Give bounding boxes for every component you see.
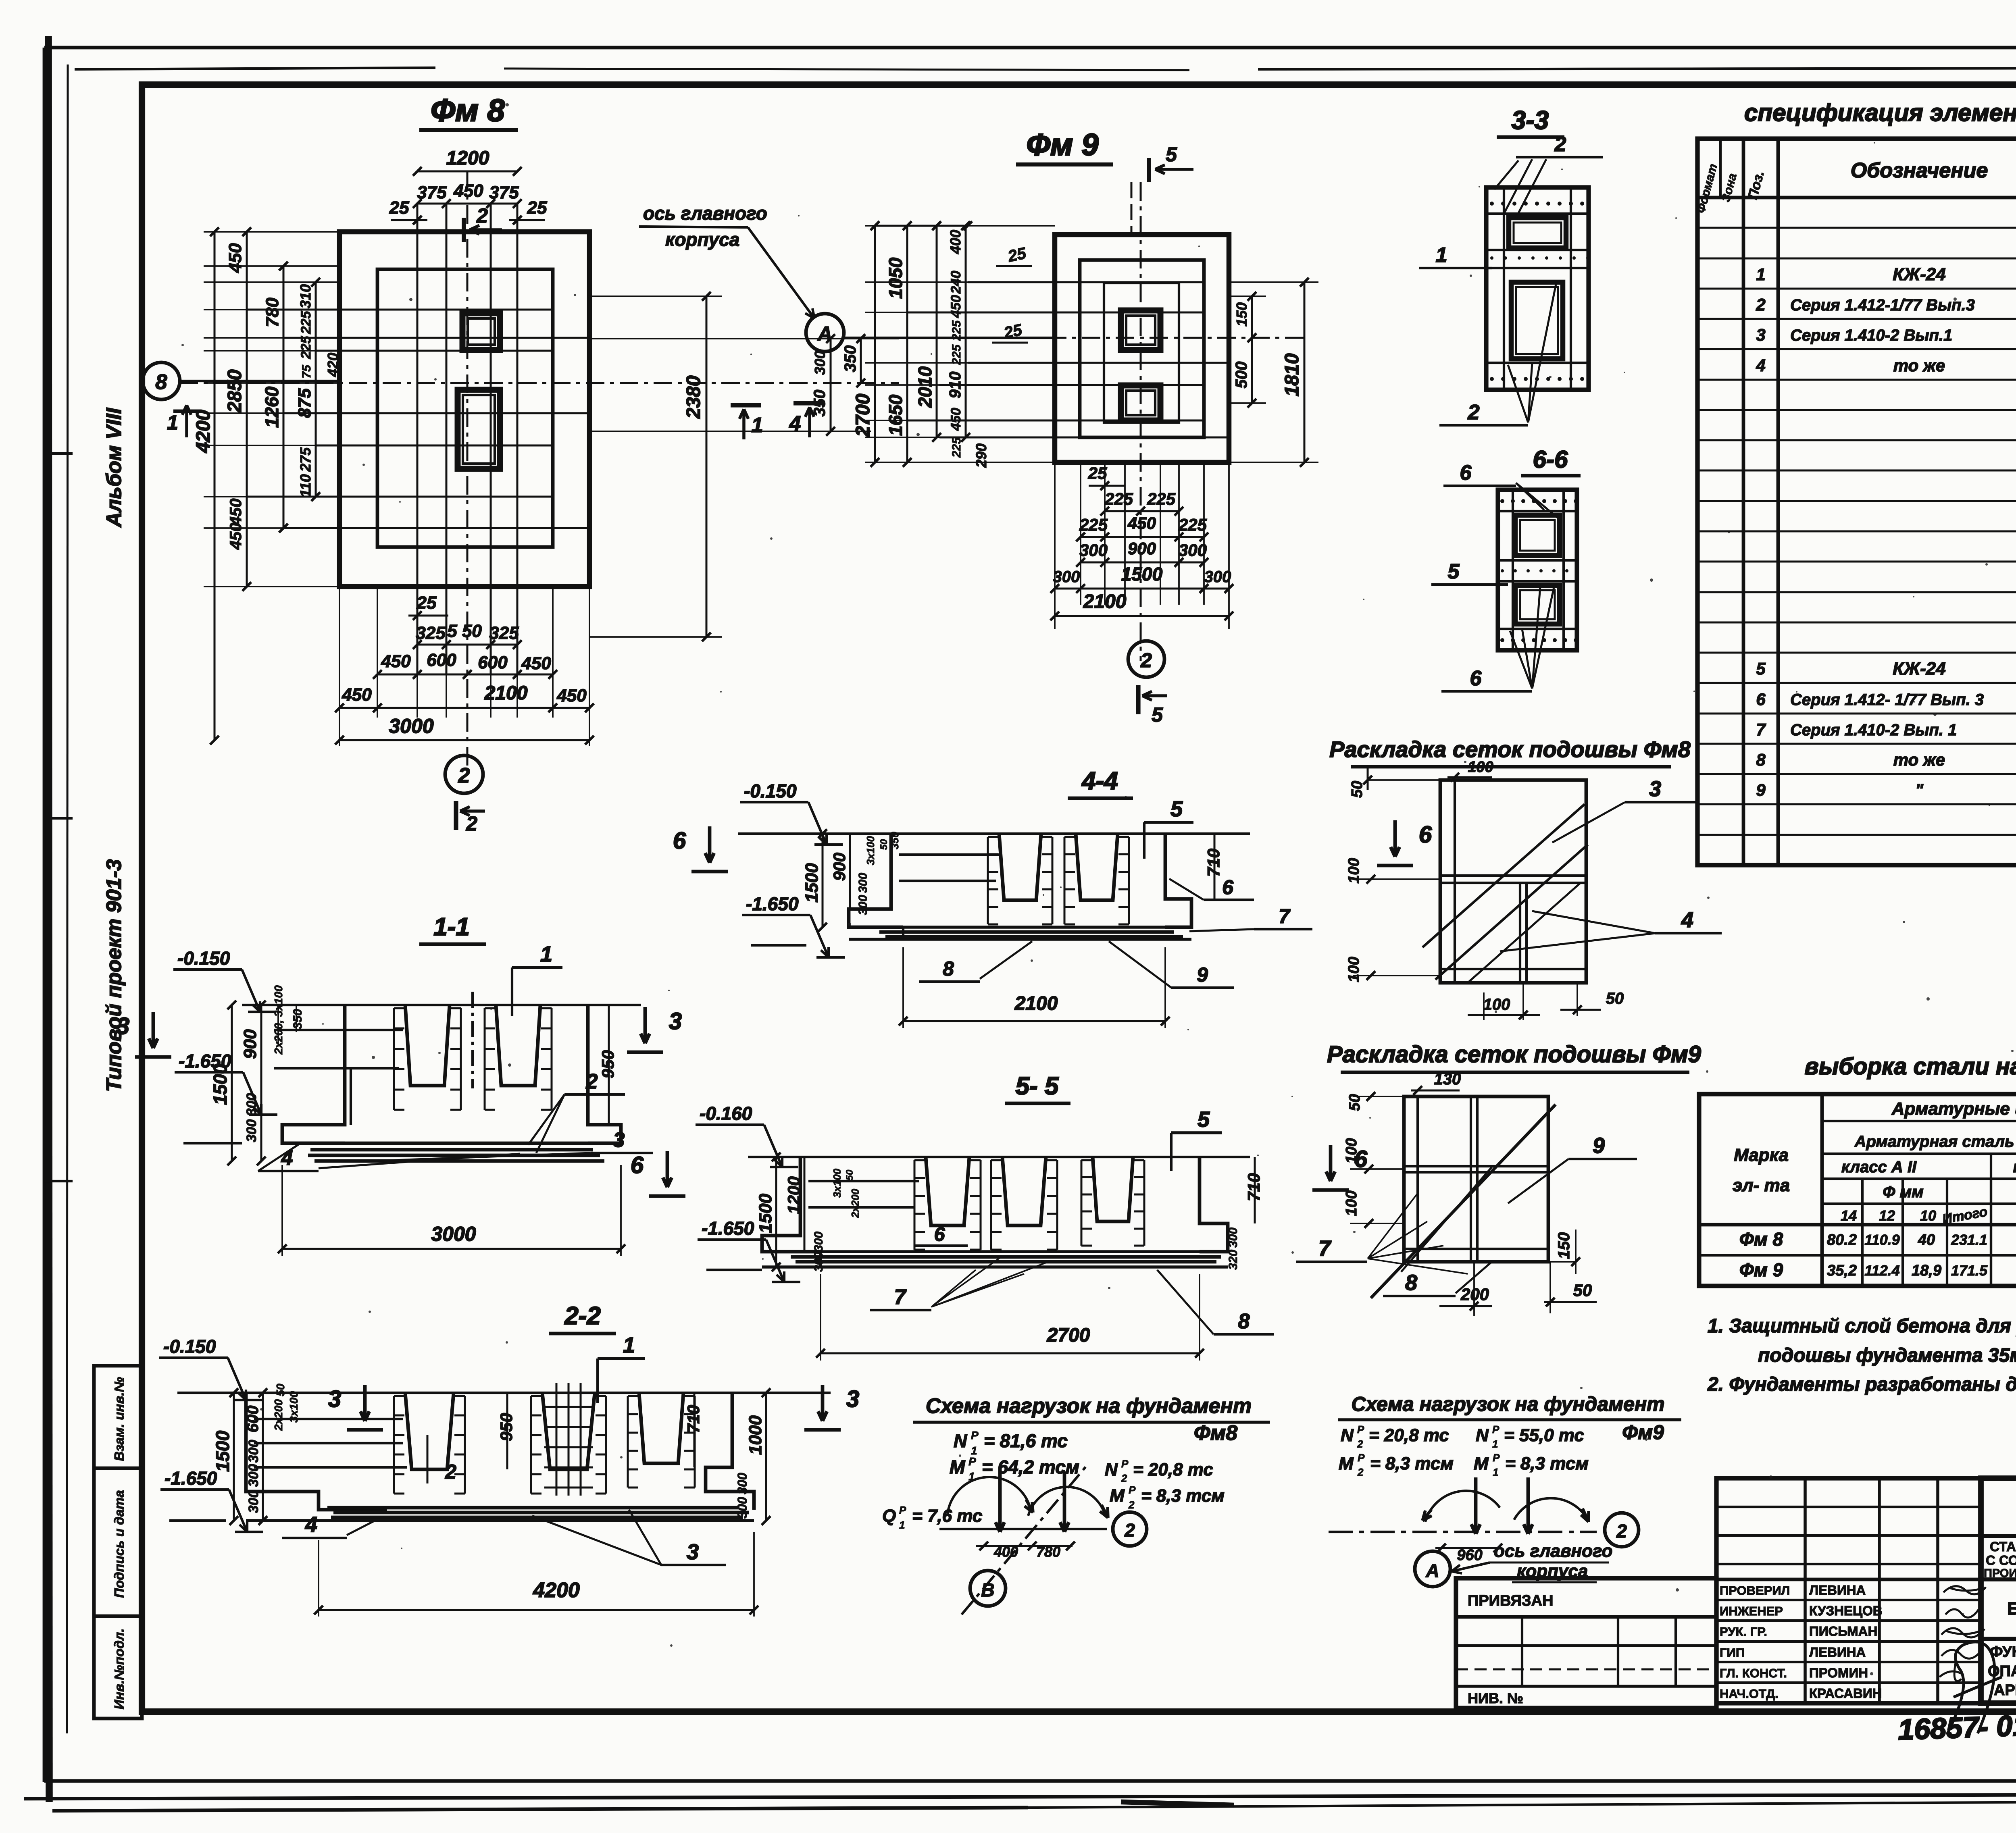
plan FM9 axis circle 2 [1128,641,1164,677]
scan left edge bar [48,36,49,1802]
svg-text:1: 1 [1436,243,1447,267]
section 4-4 left dims [822,834,824,927]
section 6-6 rebar dots [1500,499,1504,503]
plan FM9 bottom extension lines [1054,462,1056,629]
svg-text:14: 14 [1841,1207,1857,1224]
svg-text:1650: 1650 [885,394,906,436]
svg-text:450: 450 [381,651,411,671]
section 2-2 center grid rebars [556,1383,558,1496]
title block outer right part [1981,1478,2016,1703]
svg-text:Серия 1.412-1/77 Вып.3: Серия 1.412-1/77 Вып.3 [1790,296,1975,314]
svg-text:= 55,0 тс: = 55,0 тс [1504,1425,1584,1445]
plan FM9 inner second contour [1104,283,1179,422]
section 5-5 bottom dim 2700 [821,1352,1200,1354]
schema FM9 force arrow 1 [1474,1477,1478,1534]
schema FM8 axis circle B [970,1571,1006,1606]
svg-text:Схема нагрузок на фундамент: Схема нагрузок на фундамент [926,1394,1252,1418]
spec table column lines [1742,139,1745,865]
svg-text:300: 300 [812,1232,825,1252]
schema FM8 force arrow 2 [1063,1471,1066,1532]
svg-text:2. Фундаменты разработаны дл: 2. Фундаменты разработаны для t°н = - 30… [1707,1374,2016,1395]
scan noise speckles [399,501,401,503]
plan FM8 internal vertical lines [417,204,419,674]
svg-text:класс А II: класс А II [1841,1158,1917,1176]
svg-text:1: 1 [899,1519,905,1531]
svg-text:300: 300 [244,1093,259,1116]
plan FM9 small dims 25 [996,265,1032,267]
section 4-4 inner horizontals [899,853,1000,856]
svg-text:300: 300 [856,895,870,915]
plan FM8 section mark 2 bottom [454,801,458,830]
svg-text:2: 2 [1357,1438,1363,1450]
schema FM9 base axis line [1329,1531,1597,1533]
vyborka table structure [1820,1094,1824,1286]
svg-text:225: 225 [298,311,314,335]
svg-text:= 20,8 тс: = 20,8 тс [1369,1425,1449,1445]
svg-text:3: 3 [669,1008,682,1034]
svg-text:450: 450 [948,295,964,318]
plan FM8 anchor hole bottom [458,390,500,469]
svg-text:450: 450 [948,408,964,431]
svg-text:50: 50 [274,1384,287,1396]
svg-text:-1.650: -1.650 [702,1218,754,1239]
plan FM9 bottom dim 2100 [1055,615,1229,617]
spec table outer [1697,139,2016,865]
svg-text:7: 7 [1318,1236,1332,1261]
plan FM9 left dim ladder [874,226,876,462]
svg-text:290: 290 [973,443,989,468]
svg-text:1500: 1500 [802,863,822,903]
svg-text:-1.650: -1.650 [165,1468,217,1489]
svg-text:1260: 1260 [261,386,282,428]
svg-text:2x200: 2x200 [272,1399,285,1431]
svg-text:P: P [1358,1452,1365,1464]
section mark 1 mid [731,403,761,407]
svg-text:1500: 1500 [756,1194,775,1233]
svg-text:150: 150 [1555,1232,1573,1259]
svg-text:9: 9 [1756,780,1766,799]
svg-text:2: 2 [476,204,488,227]
svg-text:БЛОК МИКРОФИЛЬТРОВ.: БЛОК МИКРОФИЛЬТРОВ. [2007,1599,2016,1619]
svg-text:1810: 1810 [1281,353,1303,396]
svg-text:300: 300 [1227,1227,1240,1248]
svg-text:9: 9 [1197,963,1208,986]
svg-text:НАЧ.ОТД.: НАЧ.ОТД. [1720,1687,1779,1701]
svg-text:130: 130 [1434,1070,1461,1088]
plan FM8 left dim ladder [214,232,216,740]
plan FM9 bottom dims 25 [1089,485,1125,487]
svg-text:8: 8 [1405,1271,1417,1295]
svg-text:900: 900 [830,853,849,881]
svg-text:8: 8 [1756,750,1766,769]
svg-text:ИНЖЕНЕР: ИНЖЕНЕР [1720,1604,1783,1618]
section 1-1 left dims [231,1005,233,1161]
section 1-1 bottom mesh [310,1148,593,1152]
svg-text:6: 6 [1419,822,1432,848]
plan FM9 inner contour [1080,260,1204,437]
svg-text:эл- та: эл- та [1733,1175,1790,1195]
section 2-2 cut mark 3 right [821,1385,825,1421]
svg-text:350: 350 [291,1009,304,1029]
svg-text:2: 2 [1357,1466,1364,1478]
svg-text:100: 100 [1345,957,1362,982]
schema FM9 force arrow 2 [1527,1477,1530,1534]
svg-text:450: 450 [227,499,245,526]
svg-text:2: 2 [1468,401,1480,424]
section 4-4 label 5 leader [1144,821,1193,824]
svg-text:Серия 1.410-2 Вып.1: Серия 1.410-2 Вып.1 [1790,327,1952,344]
plan FM9 outer contour [1055,235,1229,462]
svg-text:5: 5 [1170,797,1183,821]
svg-text:320: 320 [1227,1250,1240,1270]
svg-text:400: 400 [947,230,964,254]
svg-text:Раскладка сеток подошвы Фм8: Раскладка сеток подошвы Фм8 [1329,736,1691,762]
svg-text:то же: то же [1893,750,1945,769]
section 1-1 top level line [242,1004,641,1006]
svg-text:2010: 2010 [914,366,935,408]
plan FM8 section mark 2 top [462,218,466,242]
svg-text:3-3: 3-3 [1512,106,1549,135]
svg-text:100: 100 [1343,1190,1360,1216]
svg-text:3x100: 3x100 [864,836,877,865]
section 4-4 sockets [999,834,1041,900]
svg-text:450: 450 [556,686,587,705]
svg-text:-1.650: -1.650 [746,893,799,914]
left margin stamp box [94,1366,142,1718]
svg-text:то же: то же [1893,356,1945,375]
svg-text:5: 5 [1198,1107,1210,1132]
svg-text:171.5: 171.5 [1951,1262,1988,1279]
svg-text:3: 3 [846,1386,859,1412]
section 2-2 cut mark 3 left [363,1385,367,1421]
plan FM9 bottom dims 300 900 300 [1081,562,1204,564]
schema FM9 axis circle A [1415,1551,1450,1587]
svg-text:Марка: Марка [1734,1145,1789,1165]
svg-text:112.4: 112.4 [1864,1262,1899,1279]
section 6-6 window top [1515,515,1560,555]
section 2-2 bottom dim 4200 [319,1609,754,1611]
privyazan box inner grid [1456,1644,1716,1647]
svg-text:150: 150 [1233,302,1250,327]
svg-text:18,9: 18,9 [1912,1262,1941,1279]
section 1-1 cut mark 3 left [152,1012,155,1048]
svg-text:P: P [1129,1484,1136,1496]
svg-text:корпуса: корпуса [665,229,739,250]
svg-text:6-6: 6-6 [1533,446,1568,473]
svg-text:ось главного: ось главного [1494,1541,1612,1561]
svg-text:4: 4 [1681,908,1693,932]
svg-text:N: N [954,1430,967,1451]
svg-text:3000: 3000 [389,715,433,737]
svg-text:3: 3 [613,1128,625,1152]
svg-text:450: 450 [453,181,483,201]
svg-text:P: P [968,1455,976,1468]
section 5-5 cut mark 6 right [1329,1145,1333,1181]
plan FM9 anchor hole bottom [1121,385,1160,420]
svg-text:5: 5 [1756,659,1766,678]
schema FM8 moment arc 1 [948,1477,1030,1514]
svg-text:100: 100 [1483,996,1510,1013]
svg-text:2700: 2700 [1047,1325,1090,1346]
svg-text:2: 2 [466,812,477,835]
svg-text:6: 6 [631,1152,644,1178]
svg-text:-0.160: -0.160 [700,1103,752,1124]
svg-text:6: 6 [1756,690,1766,709]
svg-text:25: 25 [1088,464,1107,483]
svg-text:КРАСАВИН: КРАСАВИН [1809,1686,1882,1701]
plan FM9 right dims 150 500 [1251,296,1253,338]
svg-text:450: 450 [227,523,245,550]
svg-text:8: 8 [156,370,167,394]
svg-text:АРМИРОВАНИЕ: АРМИРОВАНИЕ [1994,1682,2016,1699]
svg-text:2: 2 [1128,1499,1135,1511]
svg-text:900: 900 [240,1029,260,1059]
svg-text:-0.150: -0.150 [744,780,797,801]
svg-text:225: 225 [1178,515,1207,534]
svg-text:100: 100 [1468,759,1493,776]
axis circle A top [806,314,844,352]
section 1-1 center rebar [471,992,474,1088]
svg-text:5: 5 [1152,703,1163,726]
svg-text:350: 350 [889,832,901,849]
title block signatures scribbles [1943,1586,1986,1594]
outer sheet border [44,46,2016,50]
plan FM8 internal horizontal lines [247,309,553,311]
svg-text:5- 5: 5- 5 [1016,1072,1059,1100]
schema FM8 force arrow 1 [998,1467,1002,1532]
svg-text:780: 780 [262,298,282,327]
svg-text:M: M [1474,1454,1489,1473]
section 1-1 cut mark 3 right [644,1007,647,1043]
section 3-3 window top [1509,218,1566,248]
svg-text:1: 1 [752,414,763,437]
svg-text:Инв.№подл.: Инв.№подл. [112,1629,127,1710]
svg-text:Типовой проект 901-3: Типовой проект 901-3 [102,859,126,1092]
svg-text:3: 3 [687,1540,699,1564]
section 6-6 body [1498,490,1577,650]
schema FM9 axis circle 2 [1605,1513,1639,1547]
plan FM9 bottom dims 225 225 [1105,510,1179,512]
svg-text:= 81,6 тс: = 81,6 тс [984,1430,1068,1451]
svg-text:ПИСЬМАН: ПИСЬМАН [1809,1624,1877,1639]
section 2-2 label 1 leader [598,1357,645,1360]
svg-text:2380: 2380 [683,375,704,419]
svg-text:Арматурная сталь ГОСТ5781-75: Арматурная сталь ГОСТ5781-75 [1854,1133,2016,1151]
svg-text:300: 300 [812,1252,825,1272]
svg-text:375: 375 [417,183,447,202]
section 2-2 body outline [246,1393,387,1510]
svg-text:A: A [817,322,832,345]
svg-text:2: 2 [1124,1520,1135,1541]
plan FM9 section mark 5 bottom [1136,685,1140,714]
svg-text:подошвы фундамента 35: подошвы фундамента 35мм. [1758,1345,2016,1366]
plan FM8 bottom dims 325 5 50 325 [417,644,517,646]
plan FM8 bottom dims 450 600 600 450 [377,674,553,676]
svg-text:9: 9 [1593,1134,1605,1158]
title block signature grid [1716,1478,1981,1703]
privyazan box [1456,1578,1716,1708]
svg-text:225: 225 [950,437,963,458]
svg-text:1: 1 [623,1333,635,1357]
section 2-2 mid dim 950 [506,1393,508,1469]
svg-text:Фм 9: Фм 9 [1027,128,1099,162]
scan top broken line [75,68,435,69]
svg-text:710: 710 [1244,1173,1263,1201]
svg-text:2: 2 [1121,1472,1127,1484]
svg-text:2: 2 [586,1070,598,1093]
svg-text:300: 300 [856,873,870,893]
section 5-5 left dims [775,1157,777,1267]
svg-text:1: 1 [167,411,178,434]
section 1-1 right dim 950 [608,1005,610,1125]
svg-text:1200: 1200 [446,148,489,169]
svg-text:Серия 1.410-2 Вып. 1: Серия 1.410-2 Вып. 1 [1790,721,1957,739]
svg-text:Обозначение: Обозначение [1851,159,1988,182]
svg-text:1500: 1500 [212,1430,233,1472]
plan FM8 row axis horizontal [179,382,899,384]
svg-text:4200: 4200 [193,410,214,453]
svg-text:7: 7 [1756,720,1766,739]
svg-text:НИВ. №: НИВ. № [1468,1690,1523,1706]
plan FM8 outer contour [339,232,589,587]
section 2-2 bottom mesh [327,1506,739,1510]
svg-text:950: 950 [598,1050,617,1078]
svg-text:С СОДЕРЖАНИЕМ ВЗВЕШЕННЫХ ВЕЩ: С СОДЕРЖАНИЕМ ВЗВЕШЕННЫХ ВЕЩЕСТВ ДО 2500… [1986,1553,2016,1568]
svg-text:2100: 2100 [1014,993,1058,1014]
svg-text:N: N [1105,1460,1118,1479]
section 3-3 rebar dots [1490,202,1494,206]
plan FM8 ladder horizontal connectors [204,231,339,233]
svg-text:40: 40 [1918,1232,1935,1248]
svg-text:8: 8 [943,957,954,980]
svg-text:КУЗНЕЦОВ: КУЗНЕЦОВ [1809,1603,1883,1618]
svg-text:КЖ-24: КЖ-24 [1893,264,1945,284]
svg-text:ГЛ. КОНСТ.: ГЛ. КОНСТ. [1720,1666,1787,1680]
svg-text:ГИП: ГИП [1720,1646,1745,1660]
plan FM9 bottom dims 300 1500 300 [1055,588,1229,590]
svg-text:2700: 2700 [852,393,874,437]
svg-text:1: 1 [540,942,552,966]
svg-text:600: 600 [478,653,508,672]
svg-text:ПРОВЕРИЛ: ПРОВЕРИЛ [1720,1583,1790,1598]
vyborka table outer [1699,1094,2016,1286]
svg-text:2100: 2100 [1083,591,1127,612]
spec table row lines [1697,227,2016,229]
svg-text:375: 375 [489,183,519,202]
svg-text:ЛЕВИНА: ЛЕВИНА [1809,1583,1866,1598]
section 3-3 window bottom [1511,282,1563,359]
raskladka FM8 diagonal bars [1422,804,1585,947]
svg-text:710: 710 [1204,849,1223,877]
plan FM8 axis circle 8 [143,362,180,399]
plan FM8 anchor hole top [462,313,500,350]
title block row TP 901-3-137 [1981,1534,2016,1538]
svg-text:275: 275 [297,447,314,472]
schema FM9 moment arc 1 [1425,1491,1500,1522]
section 5-5 label 5 leader [1171,1131,1222,1134]
svg-text:1: 1 [1493,1466,1498,1478]
svg-text:325: 325 [489,623,519,643]
svg-text:Фм8: Фм8 [1194,1421,1237,1445]
svg-text:": " [1915,780,1924,799]
section 4-4 cut mark 6 left [708,826,712,863]
svg-text:225: 225 [1079,515,1108,534]
section 5-5 inner horizontals [808,1180,919,1182]
section 4-4 cut mark 6 right [1393,820,1397,857]
left border registration ticks [44,452,73,455]
svg-text:ПРОМИН: ПРОМИН [1809,1665,1868,1680]
svg-text:1. Защитный слой бетона для: 1. Защитный слой бетона для рабочей арма… [1708,1315,2016,1337]
svg-text:75: 75 [300,364,313,379]
section 5-5 body outline [762,1157,821,1252]
svg-text:600: 600 [244,1406,262,1433]
svg-text:1-1: 1-1 [433,913,470,941]
svg-text:3: 3 [1649,777,1661,801]
svg-text:16857- 01: 16857- 01 [1897,1709,2016,1746]
plan FM9 bottom dims 225 450 225 [1081,536,1204,538]
svg-text:8: 8 [1238,1310,1250,1333]
svg-text:ЛЕВИНА: ЛЕВИНА [1809,1645,1866,1660]
svg-text:P: P [899,1504,906,1516]
plan FM8 bottom dims 450 2100 450 [339,707,589,709]
svg-text:50: 50 [879,839,889,850]
section 2-2 left dims [233,1393,235,1521]
svg-text:2: 2 [1140,649,1152,672]
plan FM9 section mark 5 top [1147,158,1151,182]
svg-text:Фм 9: Фм 9 [1739,1259,1783,1280]
plan FM8 axis circle 2 bottom [445,755,483,793]
section 3-3 body [1486,187,1589,390]
svg-text:спецификация элементов монол: спецификация элементов монолитной констр… [1744,99,2016,126]
svg-text:50: 50 [844,1169,855,1180]
svg-text:P: P [1492,1423,1500,1436]
svg-text:450: 450 [1127,514,1156,533]
schema FM8 moment arc 2 [1028,1487,1105,1516]
schema FM8 dim 400 780 [976,1545,1073,1547]
plan FM9 ladder connectors [865,225,1055,227]
svg-text:= 8,3 тсм: = 8,3 тсм [1505,1454,1589,1473]
plan FM8 column axis vertical [467,171,469,766]
svg-text:2: 2 [1616,1521,1627,1542]
svg-text:80.2: 80.2 [1827,1232,1857,1248]
title block mid band [1981,1637,2016,1641]
plan FM9 top dim line [875,225,968,227]
svg-text:450: 450 [521,653,551,673]
svg-text:12: 12 [1879,1207,1895,1224]
plan FM8 right dims 300 350 [830,339,832,431]
svg-text:225: 225 [1104,489,1133,508]
svg-text:300: 300 [812,351,828,375]
plan FM9 internal horizontals [968,281,1204,283]
plan FM8 section mark 1 left [173,410,202,413]
svg-text:1000: 1000 [746,1415,765,1455]
svg-text:1500: 1500 [210,1063,231,1105]
svg-text:300: 300 [246,1490,261,1513]
svg-text:50: 50 [1573,1281,1592,1300]
svg-text:3000: 3000 [431,1223,476,1245]
svg-text:P: P [1121,1458,1129,1470]
svg-text:P: P [971,1429,979,1442]
svg-text:Серия 1.412- 1/77 Вып. 3: Серия 1.412- 1/77 Вып. 3 [1790,691,1984,709]
svg-text:ось главного: ось главного [643,203,767,224]
svg-text:300: 300 [1079,541,1108,560]
svg-text:300: 300 [246,1440,261,1463]
svg-text:1500: 1500 [1121,564,1163,585]
svg-text:Арматурные изделия: Арматурные изделия [1891,1099,2016,1119]
svg-text:6: 6 [1222,876,1234,899]
svg-text:Фм 8: Фм 8 [1739,1229,1783,1250]
svg-text:225: 225 [298,336,314,360]
